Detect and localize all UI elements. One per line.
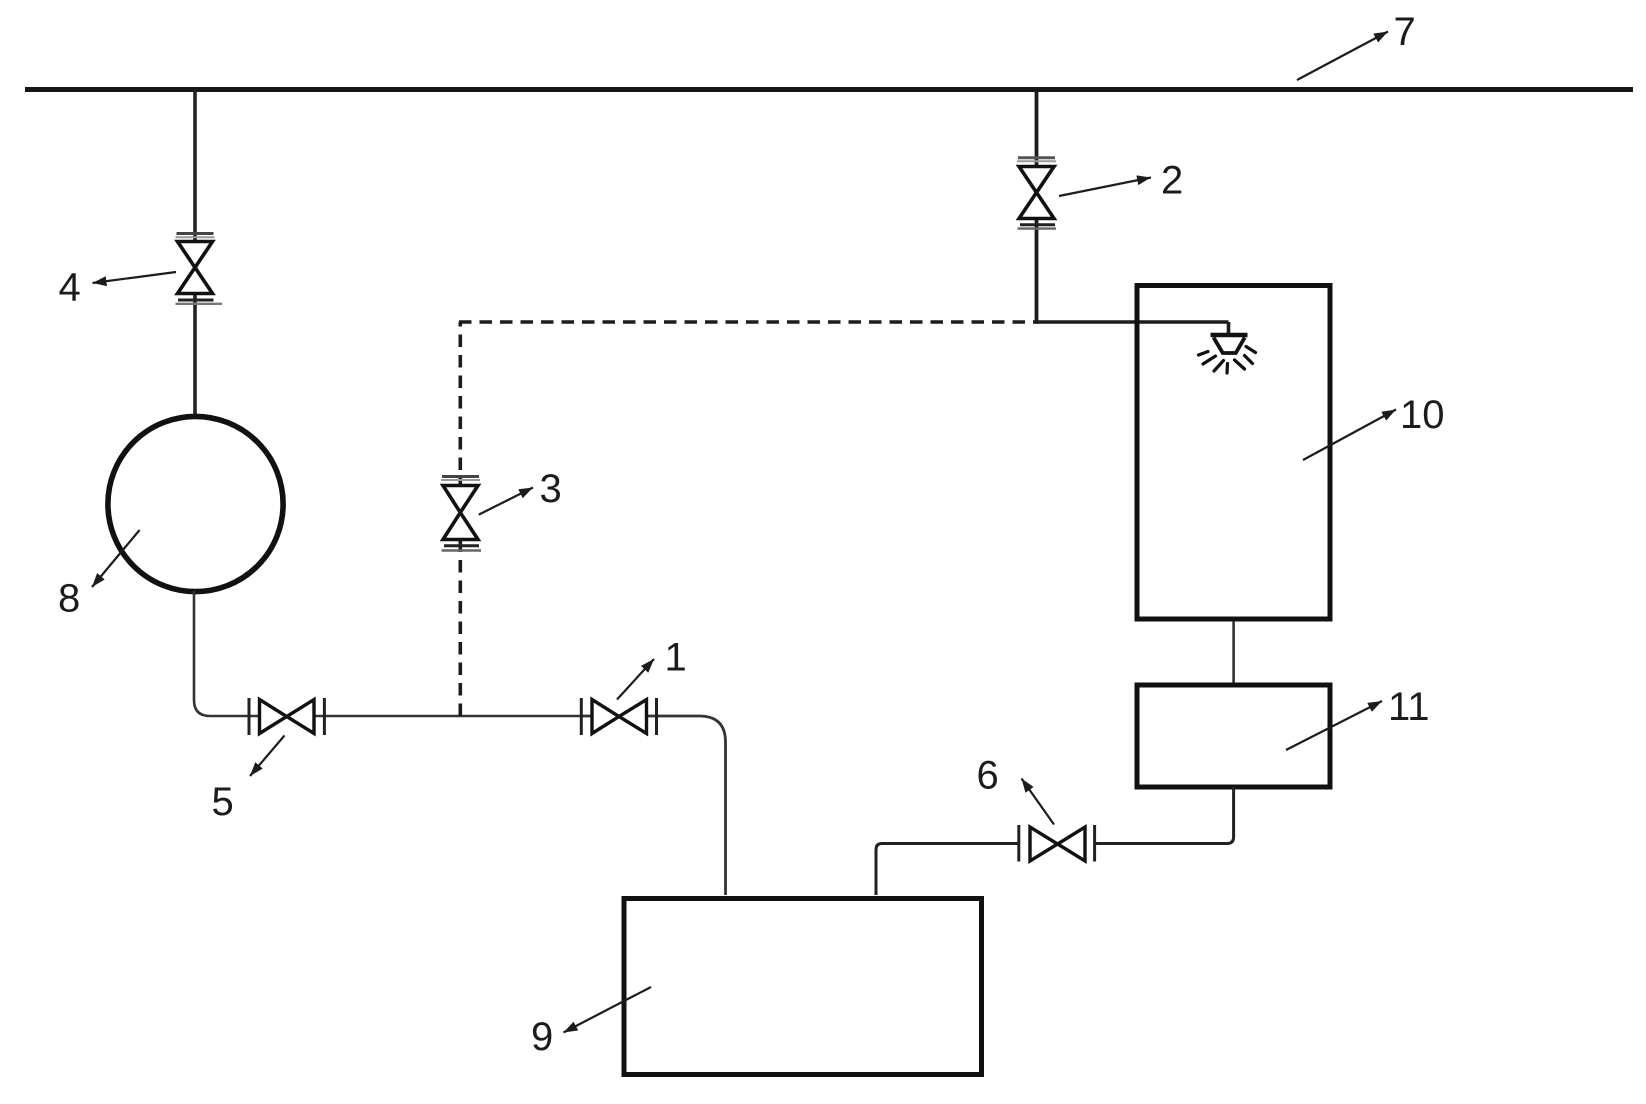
svg-text:7: 7 <box>1394 10 1416 54</box>
svg-text:5: 5 <box>212 780 234 824</box>
svg-text:9: 9 <box>531 1015 553 1059</box>
svg-text:8: 8 <box>58 577 80 621</box>
svg-text:1: 1 <box>665 636 687 680</box>
svg-text:2: 2 <box>1161 159 1183 203</box>
svg-text:3: 3 <box>540 467 562 511</box>
svg-text:6: 6 <box>977 754 999 798</box>
svg-text:4: 4 <box>59 266 81 310</box>
svg-text:10: 10 <box>1400 393 1445 437</box>
svg-text:11: 11 <box>1388 685 1430 729</box>
